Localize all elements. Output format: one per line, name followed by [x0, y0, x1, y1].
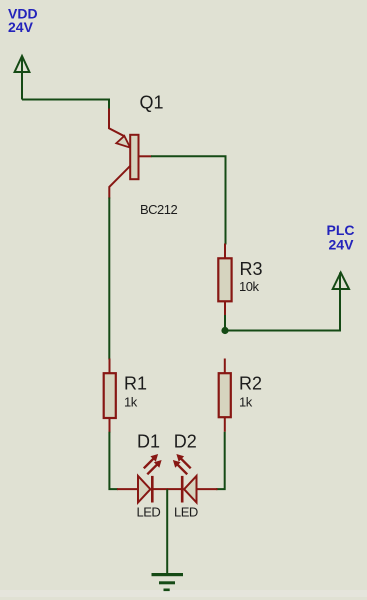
resistor R2: [219, 359, 231, 432]
wire R2 to D2: [216, 432, 225, 489]
triangle: [184, 476, 196, 503]
power symbol PLC arrow: [333, 273, 349, 331]
wire R3 to junction: [224, 315, 226, 331]
resistor R3: [218, 244, 231, 317]
emission arrow: [180, 457, 191, 468]
wire junction to PLC: [225, 288, 340, 331]
triangle: [138, 476, 150, 503]
ground: [152, 573, 184, 591]
svg-text:BC212: BC212: [140, 202, 178, 217]
base bar: [130, 135, 138, 179]
svg-text:1k: 1k: [124, 394, 138, 409]
svg-text:LED: LED: [174, 504, 198, 519]
wire VDD to Q1 emitter: [22, 100, 109, 111]
svg-text:D2: D2: [174, 431, 197, 451]
power label VDD 24V: [8, 6, 38, 35]
resistor R1: [104, 359, 116, 433]
wire LEDs to ground: [166, 489, 168, 574]
svg-text:10k: 10k: [239, 279, 259, 294]
emitter arrowhead: [116, 136, 130, 148]
base pin: [139, 155, 152, 157]
svg-text:Q1: Q1: [140, 93, 164, 113]
transistor Q1 (PNP BC212): [109, 109, 152, 199]
svg-text:R2: R2: [239, 374, 262, 394]
cathode pin: [167, 488, 182, 490]
svg-text:24V: 24V: [329, 237, 355, 253]
wire Q1 collector to R1: [108, 198, 110, 360]
svg-text:R3: R3: [240, 259, 263, 279]
wire base to R3: [151, 156, 226, 244]
node junction dot: [221, 327, 228, 334]
svg-text:D1: D1: [137, 431, 160, 451]
emission arrow: [176, 463, 187, 474]
emission arrow: [147, 463, 158, 474]
emission arrow: [144, 457, 155, 468]
cathode bar: [181, 476, 184, 503]
svg-text:1k: 1k: [239, 394, 253, 409]
cathode pin: [152, 488, 167, 490]
svg-text:LED: LED: [137, 504, 161, 519]
power label PLC 24V: [327, 222, 355, 253]
anode pin: [117, 488, 138, 490]
emitter pin: [109, 109, 124, 137]
svg-text:R1: R1: [124, 374, 147, 394]
cathode bar: [151, 476, 154, 503]
wire R1 to D1: [109, 432, 118, 489]
collector pin: [109, 166, 130, 199]
LED D1: [117, 454, 168, 503]
power symbol VDD arrow: [15, 56, 30, 100]
LED D2: [167, 454, 218, 503]
anode pin: [197, 488, 218, 490]
svg-text:24V: 24V: [8, 19, 34, 35]
svg-text:PLC: PLC: [327, 222, 355, 238]
